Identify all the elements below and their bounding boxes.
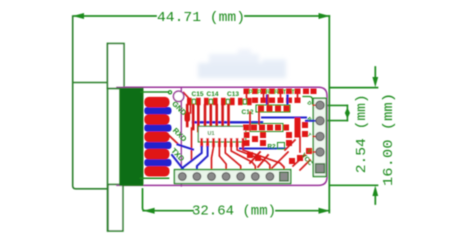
dimension 44.71 left arrow [73,13,84,19]
cap pads row [187,98,192,105]
dimension 32.64 line left segment [143,210,193,212]
dimension 2.54 diamond arrows [345,108,350,119]
capacitor C16 outline [243,99,247,104]
bottom header pin 2 [193,173,201,181]
pad blue 4 [144,159,171,167]
DB9 top mounting ear [108,44,125,89]
mounting hole (white circle, purple ring) [173,91,183,101]
svg-text:44.71 (mm): 44.71 (mm) [157,10,245,26]
dimension 44.71 line left segment [74,15,156,17]
blue inter-row stubs [266,96,268,105]
pad red 4 [144,149,169,160]
capacitor C14 outline [209,99,213,104]
red vertical trace left of U1 [191,128,193,160]
pad blue 2 [144,124,171,132]
right header pin 3 [316,132,324,140]
right header pin 2 [316,117,324,125]
right pin header outline [313,98,326,176]
extension line right (x=329) [328,16,330,213]
svg-text:T: T [291,89,295,96]
blue trace right upper [262,117,306,119]
right header pin 4 [316,148,324,156]
fan traces U1 to bottom header [182,147,201,172]
svg-text:P: P [257,89,262,96]
svg-text:16.00 (mm): 16.00 (mm) [381,93,397,186]
bottom header pin 7 [266,173,274,181]
diode D1 red bar [295,118,301,138]
DB9 connector shell outline [73,16,108,189]
capacitor C13 outline [226,99,230,104]
dimension 32.64 right arrow [319,208,330,214]
bottom pin header outline [174,170,290,184]
svg-text:C15: C15 [192,91,204,98]
U1 pins bottom [200,138,203,147]
pad red 2 [144,114,169,125]
bottom header pin 5 [237,173,245,181]
pad blue 1 [144,107,171,115]
cluster red traces [249,112,251,130]
red via pad [185,112,191,123]
trace green from body to hole [141,91,169,93]
capacitor C15 outline [192,99,196,104]
body top edge line [108,87,120,89]
resistor row outline [256,105,290,112]
blue trace horizontal above U1 [193,121,262,123]
blue trace right lower [240,148,285,150]
pad red 3 [144,132,169,143]
bottom header pin 4 [222,173,230,181]
red diagonal RXD [169,135,178,144]
stubs under row1 [246,94,248,98]
bottom header pin 6 [251,173,259,181]
svg-text:32.64 (mm): 32.64 (mm) [192,204,276,220]
svg-text:C13: C13 [227,91,239,98]
scattered pads [244,132,250,138]
bottom header pin 3 [208,173,216,181]
dimension 44.71 right arrow [319,13,330,19]
dimension 32.64 left arrow [143,208,154,214]
blue diagonal TXD [172,155,183,169]
green trace below stack [141,177,169,179]
mid cluster outline [250,124,283,132]
pad blue 3 [144,142,171,150]
bottom header pin 8 square [280,172,289,181]
IC U1 body [198,126,245,141]
svg-text:U1: U1 [207,131,214,137]
right header pad stubs [314,104,319,106]
red trace from hole area [184,93,191,114]
svg-text:R2: R2 [267,144,276,151]
right cluster top pad row 2 [252,98,258,104]
dimension 2.54 tick top [322,104,347,106]
svg-text:C14: C14 [207,91,219,98]
right header pin 5 square [316,164,325,173]
svg-text:2.54 (mm): 2.54 (mm) [354,94,370,173]
blue diagonal RXD [178,145,194,150]
mid cluster pads [243,125,249,131]
connector footprint silk line (purple vertical) [180,88,182,186]
right cluster top pad row 1 [244,89,250,95]
DB9 connector body on PCB (dark green) [120,88,143,185]
svg-text:C12: C12 [242,109,254,116]
R2 outline box [278,143,285,150]
dimension 2.54 tick bottom [322,120,347,122]
DB9 shell top edge [74,82,108,84]
DB9 flange left edge [107,44,109,232]
red trace verticals from caps [186,105,189,126]
dimension 16.00 top extension line [330,87,378,89]
svg-text:P: P [249,89,254,96]
dimension 16.00 bottom arrow (up) [374,194,376,204]
dimension 44.71 line right segment [245,15,329,17]
dimension 32.64 left extension [143,189,146,211]
DB9 bottom mounting ear [108,185,123,232]
dimension 2.54 connector line [346,105,348,120]
svg-text:T: T [283,89,287,96]
dimension 16.00 bottom extension line [330,184,378,186]
dimension 16.00 top arrow (down) [374,67,376,79]
right header pin 1 [316,101,324,109]
pad red 1 [144,97,169,108]
svg-text:R: R [274,89,279,96]
green corner trace to pad1 [303,97,313,105]
dimension 32.64 line right segment [276,210,329,212]
bottom header pin 1 [178,173,186,181]
PCB silkscreen outline (purple rounded) [117,87,327,185]
extra cluster traces [250,152,260,163]
pad red 5 [144,166,169,176]
